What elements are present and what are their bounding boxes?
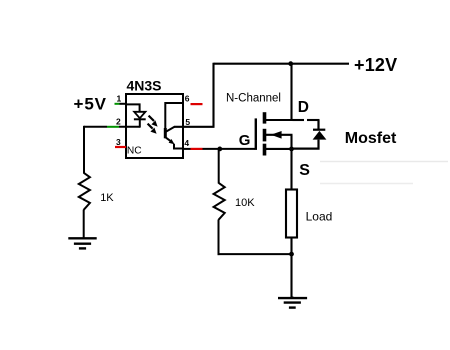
svg-text:1: 1	[117, 93, 122, 103]
wire: rail down to optocoupler pin 5	[212, 63, 214, 127]
svg-text:Load: Load	[306, 209, 333, 223]
svg-text:10K: 10K	[235, 197, 255, 209]
transistor Q1: emitter lead to pin 4	[174, 144, 183, 149]
ground symbol (right)	[291, 297, 293, 299]
diode D2: bottom lead	[293, 140, 319, 149]
wire: drain vertical from rail	[290, 64, 292, 120]
transistor Q1: base lead from pin 6	[165, 103, 183, 129]
light arrow 1	[149, 116, 154, 121]
faint artifact line upper right (decorative)	[320, 161, 448, 163]
transistor Q2: channel bar middle	[263, 129, 267, 142]
wire: pin 6 stub (red, NC)	[191, 103, 203, 105]
svg-text:S: S	[299, 162, 310, 179]
diode D1: internal LED triangle	[134, 112, 145, 118]
transistor Q2: MOSFET gate bar	[255, 118, 257, 149]
wire: pin 4 to gate node	[203, 148, 256, 150]
resistor R3: Load rectangle	[286, 190, 297, 238]
wire: drain horizontal	[265, 119, 293, 121]
junction node: gate / 10K	[217, 147, 222, 152]
wire: pin 4 stub red segment	[183, 148, 191, 150]
wire: pin 3 stub (red, NC)	[115, 146, 126, 148]
wire: 1K bottom lead	[83, 210, 85, 238]
wire: 1K vertical from pin2 wire	[83, 126, 85, 174]
svg-text:D: D	[298, 99, 309, 116]
svg-text:N-Channel: N-Channel	[226, 93, 281, 105]
junction dot: source node	[289, 147, 294, 152]
wire: 10K bottom lead	[218, 220, 220, 255]
resistor R2: 10K zigzag	[214, 183, 225, 220]
wire: source down to load	[290, 149, 292, 190]
svg-text:NC: NC	[127, 146, 142, 157]
transistor Q1: emitter diagonal with arrow	[166, 138, 172, 142]
resistor R1: 1K zigzag	[79, 173, 90, 210]
svg-text:6: 6	[185, 94, 190, 104]
diode D2: triangle	[313, 131, 327, 140]
transistor Q2: channel bar bottom	[263, 144, 267, 156]
junction dot on +12V rail	[288, 61, 293, 66]
wire: +12V top rail	[214, 63, 350, 65]
diode D2: body diode top branch	[293, 119, 305, 121]
junction dot: load / 10K node	[289, 252, 294, 257]
transistor Q2: channel bar top	[263, 112, 267, 123]
svg-text:5: 5	[185, 117, 190, 127]
diode D1: internal LED cathode lead	[139, 119, 141, 127]
svg-text:4N3S: 4N3S	[127, 77, 162, 93]
transistor Q1: base bar	[164, 128, 167, 138]
transistor Q1: collector diagonal	[166, 127, 175, 132]
svg-text:1K: 1K	[100, 192, 114, 204]
optocoupler U1: 4N35 body box	[126, 94, 183, 158]
svg-text:+5V: +5V	[74, 94, 107, 113]
svg-text:G: G	[239, 132, 251, 149]
svg-text:2: 2	[116, 116, 121, 126]
svg-text:Mosfet: Mosfet	[345, 130, 397, 147]
diode D1: internal LED anode lead	[126, 104, 140, 111]
wire: source horizontal	[265, 148, 293, 150]
svg-text:3: 3	[116, 137, 121, 147]
ground symbol (left)	[68, 237, 96, 239]
wire: pin 1 stub (green connected segment)	[115, 103, 120, 105]
diode D1: internal LED cathode bar	[134, 118, 146, 120]
wire: 10K to load-bottom node	[218, 253, 292, 255]
wire: load bottom to ground	[290, 238, 292, 298]
wire: 10K top lead	[218, 149, 220, 184]
wire: pin 2 to 1K resistor (horizontal)	[84, 126, 107, 128]
svg-text:+12V: +12V	[354, 55, 397, 75]
wire: substrate to source vertical	[290, 135, 292, 149]
svg-text:4: 4	[184, 138, 189, 148]
wire: substrate connection with arrow	[266, 134, 293, 136]
diode D2: cathode bar	[313, 129, 325, 131]
wire: pin 5 stub to vertical riser	[174, 126, 215, 128]
light arrow 2	[148, 124, 153, 129]
